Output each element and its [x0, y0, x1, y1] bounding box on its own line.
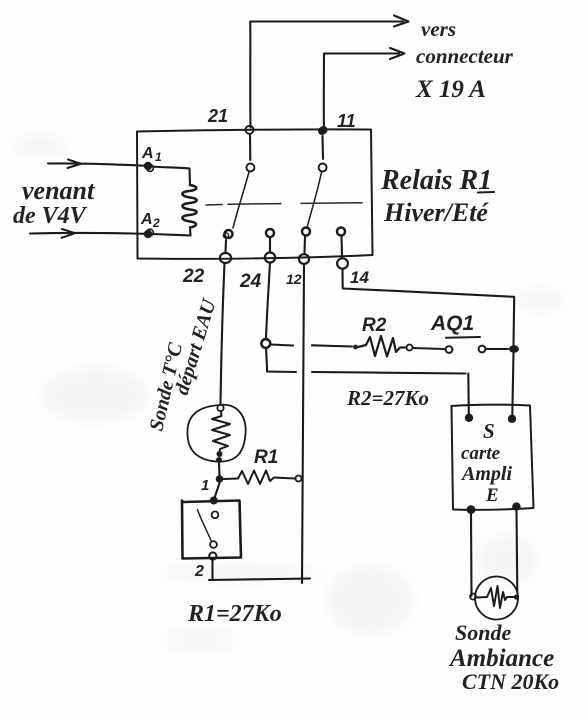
underline of R1	[478, 191, 494, 194]
node 1 junction	[216, 475, 224, 483]
label vers	[421, 17, 456, 41]
svg-text:14: 14	[350, 268, 369, 287]
wire arrow to connecteur	[324, 48, 405, 59]
contact 21 pivot	[246, 126, 254, 134]
dashed mechanical link	[206, 203, 362, 205]
wire R2 to AQ1	[413, 348, 445, 349]
label 2	[194, 563, 204, 580]
wire node1 to switch box	[215, 483, 220, 498]
label 1	[201, 477, 209, 494]
carte bottom right terminal	[512, 502, 520, 510]
wire terminal 22 down to sonde	[221, 263, 225, 404]
contact 11 moving contact	[319, 164, 327, 172]
sonde ambiance left terminal	[470, 594, 476, 600]
svg-text:Ambiance: Ambiance	[448, 645, 554, 672]
svg-text:1: 1	[201, 477, 209, 494]
svg-text:R1: R1	[254, 447, 278, 468]
carte bottom left terminal	[467, 505, 476, 514]
contact 11 lever	[308, 172, 322, 226]
svg-text:Relais R1: Relais R1	[380, 165, 492, 196]
relay coil between A1 and A2	[152, 167, 197, 236]
wire terminal 24 down to junction	[266, 263, 270, 340]
sonde ambiance internal resistor	[477, 586, 514, 608]
wire terminal 12 down (long vertical)	[302, 264, 304, 583]
label 24	[239, 271, 262, 292]
AQ1 contact left	[446, 346, 453, 353]
terminal A1	[144, 162, 154, 172]
label Relais R1	[380, 165, 492, 196]
sonde T°C bottom terminal dots	[216, 451, 223, 463]
label connecteur	[416, 44, 514, 68]
junction node under 24	[261, 339, 270, 348]
switch box	[182, 501, 241, 559]
svg-text:24: 24	[239, 271, 262, 292]
label 11	[337, 111, 356, 131]
solder dot at R2 left	[353, 345, 358, 350]
svg-text:S: S	[483, 419, 495, 443]
label A1	[141, 145, 162, 164]
contact 11 pivot	[318, 127, 327, 135]
svg-text:CTN 20Ko: CTN 20Ko	[462, 669, 559, 694]
switch contact top	[212, 511, 219, 518]
label 22	[182, 266, 205, 287]
sonde ambiance circle	[475, 577, 518, 620]
label carte	[461, 443, 501, 464]
svg-text:de V4V: de V4V	[13, 203, 88, 229]
wire from contact 21 up to top	[249, 22, 251, 128]
arrow wire into A2	[30, 229, 146, 238]
svg-text:R1=27Ko: R1=27Ko	[187, 601, 282, 627]
label venant de V4V	[13, 176, 95, 229]
wire node 2 down	[211, 560, 213, 581]
terminal 24	[265, 229, 275, 263]
contact 11 stem	[321, 136, 324, 159]
label S	[483, 419, 495, 443]
switch contact bottom	[210, 541, 217, 548]
svg-text:vers: vers	[421, 17, 456, 41]
svg-text:connecteur: connecteur	[416, 44, 514, 68]
wire bottom horizontal to wire-12	[209, 579, 310, 581]
label X19A	[415, 76, 486, 103]
wire carte bottom-left down to sonde ambiance	[470, 514, 473, 596]
carte right input terminal	[508, 415, 516, 423]
wire 14 horizontal right	[343, 289, 514, 297]
R2 right terminal	[407, 345, 413, 351]
label Ambiance	[448, 645, 554, 672]
label 21	[207, 106, 228, 126]
resistor R2	[358, 336, 405, 357]
wire from contact 11 up	[323, 54, 325, 131]
contact 21 moving contact	[246, 164, 254, 172]
label R2=27Ko	[346, 386, 429, 410]
wire node down to carte terminal	[512, 353, 513, 415]
wire AQ1 to node	[486, 348, 508, 350]
R1 right end terminal	[296, 476, 302, 482]
carte S input terminal	[465, 414, 473, 422]
svg-text:R2: R2	[362, 315, 387, 336]
switch bottom terminal node 2	[209, 552, 216, 559]
svg-text:Ampli: Ampli	[460, 463, 512, 485]
contact 21 lever	[233, 172, 249, 228]
label Ampli	[460, 463, 512, 485]
wire top arrow to vers	[250, 16, 408, 27]
sonde T°C sensor circle	[187, 405, 245, 462]
label Sonde	[455, 620, 511, 645]
resistor R1	[224, 471, 296, 485]
AQ1 contact right	[479, 346, 486, 353]
svg-text:venant: venant	[22, 176, 95, 205]
sonde T°C internal resistor	[212, 411, 230, 452]
junction node right	[509, 345, 519, 353]
svg-text:Sonde: Sonde	[455, 620, 511, 645]
label 14	[350, 268, 369, 287]
svg-text:AQ1: AQ1	[430, 312, 474, 335]
switch top terminal	[210, 497, 218, 505]
svg-text:R2=27Ko: R2=27Ko	[346, 386, 429, 410]
label Hiver/Ete	[383, 198, 489, 227]
svg-text:A: A	[141, 145, 154, 162]
label R1=27Ko	[187, 601, 282, 627]
wire down to carte S terminal	[467, 374, 470, 415]
svg-text:12: 12	[286, 271, 302, 287]
terminal 22	[220, 230, 233, 263]
sonde T°C top terminal	[217, 405, 223, 411]
terminal 14	[337, 228, 348, 269]
svg-text:2: 2	[152, 216, 160, 230]
wire junction to R2 (with hop gap)	[271, 345, 353, 347]
label Sonde T°C depart EAU (rotated)	[145, 295, 221, 433]
label A2	[140, 211, 160, 230]
contact 21 stem	[249, 134, 251, 160]
carte Ampli box	[452, 405, 534, 510]
label 12	[286, 271, 302, 287]
svg-text:carte: carte	[461, 443, 501, 464]
label AQ1	[430, 312, 474, 335]
wire junction-24 down then right towards carte ampli	[266, 348, 466, 374]
svg-text:1: 1	[155, 150, 162, 164]
svg-text:21: 21	[207, 106, 228, 126]
label R2	[362, 315, 387, 336]
label E	[485, 485, 499, 506]
wire carte bottom-right down to sonde ambiance	[515, 511, 518, 592]
svg-text:2: 2	[194, 563, 204, 580]
wire sonde to node 1	[218, 462, 221, 476]
svg-text:11: 11	[337, 111, 356, 131]
svg-text:A: A	[140, 211, 153, 228]
svg-text:22: 22	[182, 266, 205, 287]
AQ1 contact bar	[446, 336, 480, 339]
svg-text:X 19 A: X 19 A	[415, 76, 486, 103]
wire 14 vertical down to node	[512, 297, 515, 345]
terminal 12	[299, 228, 310, 264]
label R1	[254, 447, 278, 468]
sonde ambiance right terminal	[514, 594, 519, 599]
arrow wire into A1	[48, 160, 146, 169]
switch lever	[198, 510, 212, 541]
terminal A2	[144, 229, 154, 238]
label CTN 20Ko	[462, 669, 559, 694]
svg-text:Hiver/Eté: Hiver/Eté	[383, 198, 489, 227]
relay R1 box	[137, 129, 373, 258]
svg-text:E: E	[485, 485, 499, 506]
wire terminal 14 down	[341, 269, 343, 288]
